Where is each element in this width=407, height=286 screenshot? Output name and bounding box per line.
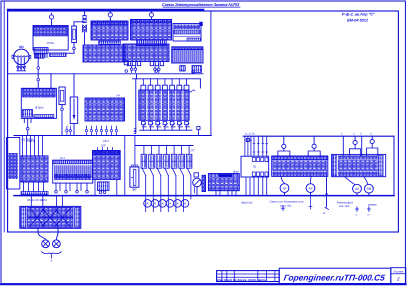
current transformer TA3 bbox=[156, 154, 162, 175]
earth tap bbox=[282, 206, 285, 211]
CT drops bbox=[144, 146, 189, 155]
svg-text:3: 3 bbox=[360, 133, 362, 136]
B2r fuse feed 2 bbox=[308, 136, 320, 156]
group brace bbox=[42, 252, 62, 255]
svg-text:4 9В М: 4 9В М bbox=[26, 139, 36, 143]
RBk outlet wires bbox=[56, 183, 87, 190]
LB feeders up bbox=[23, 136, 43, 156]
svg-text:Листов: Листов bbox=[392, 270, 403, 273]
current transformer TA6 bbox=[179, 154, 185, 175]
bank X sub block bbox=[98, 182, 110, 191]
current transformer TA2 bbox=[149, 154, 155, 175]
svg-text:резерв: резерв bbox=[367, 204, 377, 207]
B2r side wire bbox=[325, 176, 329, 209]
B1 aux lower box bbox=[35, 54, 45, 58]
matrix T top terminal boxes bbox=[141, 85, 189, 90]
bank K corner box bbox=[124, 61, 128, 65]
matrix T top stubs bbox=[143, 79, 186, 85]
B4 fuse feed 4 bbox=[367, 136, 378, 155]
B4 fuse feed 2 bbox=[350, 136, 361, 155]
title underline bbox=[163, 6, 240, 8]
relay bank RB2 bbox=[131, 20, 172, 41]
fuse box on drop bbox=[246, 139, 249, 142]
ammeter PA5 bbox=[174, 200, 182, 208]
connector X2 bbox=[192, 66, 201, 73]
fuse F4 bbox=[130, 136, 139, 192]
CB outputs to bus bbox=[246, 177, 267, 196]
svg-text:2: 2 bbox=[352, 133, 355, 136]
section bus 2b bbox=[243, 135, 394, 137]
magnetic starter B1 body bbox=[33, 26, 68, 51]
B2r connection dot bbox=[326, 193, 328, 195]
LB outlet strip bbox=[21, 192, 48, 195]
current transformer TA7 bbox=[186, 154, 192, 175]
wire FU4 to RB2 bbox=[150, 18, 152, 21]
motor M1 bbox=[12, 45, 31, 65]
switch QS1 bbox=[70, 74, 78, 136]
PLC2 aux block bbox=[23, 110, 33, 118]
svg-text:М1: М1 bbox=[19, 45, 24, 49]
B1 aux contact block bbox=[34, 48, 48, 54]
control wiring run bbox=[8, 74, 203, 132]
PLC2 bottom terminal bbox=[26, 127, 29, 130]
contactor bank K bbox=[83, 45, 125, 62]
transformer cubicle CB bbox=[241, 156, 269, 177]
CB feeders from bus2b bbox=[245, 136, 267, 156]
main 0.4kV bottom bus bbox=[14, 195, 394, 197]
brace tick bbox=[50, 255, 52, 258]
svg-text:секц. №1: секц. №1 bbox=[280, 204, 292, 207]
CB feeder ticks bbox=[253, 144, 268, 153]
bank X top stubs bbox=[98, 148, 113, 151]
matrix T bottom stubs bbox=[143, 127, 186, 130]
voltmeter PV2 bbox=[306, 176, 315, 209]
svg-text:Тр: Тр bbox=[253, 165, 257, 169]
matrix T bottom contacts bbox=[142, 121, 189, 124]
RBk outlet terminals bbox=[55, 191, 89, 194]
svg-text:20Г: 20Г bbox=[100, 144, 106, 148]
distribution bank RBk bbox=[53, 156, 93, 183]
feeder bank B4 bbox=[332, 154, 386, 176]
meter tail 2 bbox=[368, 207, 371, 212]
svg-text:дым: дым bbox=[233, 169, 239, 173]
svg-text:1: 1 bbox=[341, 133, 343, 136]
ammeter PA4 bbox=[166, 200, 174, 208]
wire PLC2 to bus2a bbox=[27, 130, 29, 136]
current transformer TA4 bbox=[164, 154, 170, 175]
cabinet feeders from bus bbox=[31, 196, 62, 207]
svg-text:АУ: АУ bbox=[308, 187, 314, 191]
current transformer TA5 bbox=[171, 154, 177, 175]
svg-text:п: п bbox=[356, 214, 358, 217]
svg-text:Схема Электроснабжения Замена: Схема Электроснабжения Замена №753 bbox=[162, 2, 240, 7]
contactor bank L bbox=[123, 44, 169, 62]
svg-text:-ПУск-: -ПУск- bbox=[46, 41, 55, 45]
lamp HL2 bbox=[53, 240, 61, 248]
svg-text:РУ: РУ bbox=[116, 94, 121, 98]
B4 feed wire 3 bbox=[361, 136, 363, 155]
ammeter PA3 bbox=[159, 200, 167, 208]
F3 terminal bbox=[61, 108, 64, 111]
svg-text:1с 2с 3с: 1с 2с 3с bbox=[245, 132, 255, 135]
svg-text:4!: 4! bbox=[323, 212, 325, 215]
wire FU2 to strip bbox=[66, 50, 74, 54]
wattmeter PW1 bbox=[345, 177, 362, 196]
hatched bank M bbox=[172, 47, 203, 63]
title block name cell bbox=[279, 268, 391, 283]
svg-text:ЭС: ЭС bbox=[132, 188, 137, 192]
svg-text:Р-ф-2, ав.Апр "С": Р-ф-2, ав.Апр "С" bbox=[342, 13, 375, 17]
bus2b tap labels right bbox=[341, 133, 372, 136]
lamp feed wires bbox=[38, 228, 58, 239]
B1 bottom terminal strip bbox=[50, 53, 67, 57]
relay matrix T bbox=[139, 90, 189, 120]
PLC2 top lead bbox=[37, 74, 39, 89]
svg-text:а б в г: а б в г bbox=[245, 139, 253, 142]
svg-text:к!: к! bbox=[368, 214, 370, 217]
svg-text:4: 4 bbox=[370, 133, 372, 136]
wattmeter PW bbox=[193, 173, 202, 196]
bank S outlet terminals bbox=[66, 126, 118, 135]
left margin line bbox=[3, 1, 5, 232]
B2r fuse feed 1 bbox=[278, 136, 290, 156]
ammeter PA6 bbox=[181, 200, 189, 208]
motor leads bbox=[18, 58, 24, 67]
fuse FU4 bbox=[149, 11, 153, 19]
relay group under RB2 bbox=[137, 40, 167, 46]
ammeter PA1 bbox=[144, 200, 152, 208]
title block table bbox=[217, 271, 280, 282]
voltage transformer drop bbox=[83, 11, 87, 45]
drawing frame bbox=[8, 11, 399, 232]
svg-text:АУ: АУ bbox=[354, 187, 360, 191]
svg-text:ВМ-04 5012: ВМ-04 5012 bbox=[347, 18, 369, 22]
bank L plug legs group 1 bbox=[127, 62, 140, 66]
ammeter drop wires bbox=[146, 176, 191, 212]
riser wire bbox=[124, 136, 126, 196]
cabinet left pillar bbox=[7, 138, 20, 190]
LB2 bus ticks bbox=[216, 191, 236, 196]
terminal bubbles row top of bay 2 bbox=[125, 70, 194, 74]
B1 down terminal bbox=[37, 67, 40, 70]
wire B1 down bbox=[37, 58, 39, 67]
feeder bank B2r bbox=[272, 156, 328, 176]
lamp HL1 bbox=[42, 240, 50, 248]
bank L plug legs group 2 bbox=[150, 62, 163, 66]
wire FU1 to starter bbox=[51, 21, 53, 26]
PLC2 right lead bbox=[50, 74, 52, 89]
svg-text:Ввод №1: Ввод №1 bbox=[242, 202, 254, 205]
squiggle label bbox=[186, 90, 195, 92]
wattmeter PW2 bbox=[364, 177, 373, 196]
wire FU3 to RB1 bbox=[109, 19, 111, 21]
feeder bank X bbox=[93, 151, 121, 180]
sheets cell bbox=[391, 268, 406, 284]
ammeter PA2 bbox=[151, 200, 159, 208]
connector plugs Ш1 bbox=[130, 66, 160, 73]
bank X outlet terminals bbox=[99, 191, 102, 194]
B1 aux legs bbox=[36, 54, 47, 58]
feeder wire (long vertical) bbox=[210, 11, 212, 136]
LB down wires bbox=[24, 182, 44, 192]
B1 terminal rows bbox=[34, 26, 68, 36]
small aux box bbox=[202, 175, 206, 191]
svg-text:РВ: РВ bbox=[367, 187, 372, 191]
svg-text:Изм Лист № докум. Подп. Дата: Изм Лист № докум. Подп. Дата bbox=[217, 278, 266, 282]
CT feed run bbox=[135, 145, 193, 147]
fuse FU1 bbox=[49, 13, 53, 21]
control panel RB3 bbox=[173, 24, 201, 42]
svg-text:Связь шин Установка шин: Связь шин Установка шин bbox=[270, 201, 304, 204]
section bus 2a bbox=[14, 135, 211, 137]
current transformer TA1 bbox=[141, 154, 147, 175]
PLC2 bottom legs bbox=[24, 118, 31, 127]
matrix T bottom switches bbox=[142, 124, 189, 127]
sheet bottom thick edge bbox=[1, 283, 406, 285]
incomer bank LB2 bbox=[208, 169, 239, 190]
RB3 corner box bbox=[199, 22, 202, 26]
distribution board cabinet bbox=[20, 206, 81, 228]
PLC2 top terminal bbox=[37, 78, 40, 81]
fuse FU2 bbox=[72, 22, 85, 47]
motor lead plugs bbox=[17, 67, 26, 71]
controller PLC2 body bbox=[21, 88, 56, 118]
svg-text:.dПуск.: .dПуск. bbox=[34, 106, 44, 110]
fuse F3 bbox=[59, 87, 65, 108]
meter tail 1 bbox=[356, 207, 359, 212]
svg-text:ЛТ: ЛТ bbox=[190, 149, 195, 153]
svg-text:2ТТ: 2ТТ bbox=[59, 156, 65, 160]
wire to control run bbox=[37, 70, 39, 74]
matrix T column gaps bbox=[147, 91, 183, 120]
svg-text:осв. №2: осв. №2 bbox=[339, 205, 350, 208]
PLC2 terminal rows bbox=[23, 88, 56, 97]
terminal strip under RB1 bbox=[99, 41, 121, 44]
B4 feed wire 1 bbox=[342, 136, 344, 155]
svg-text:2: 2 bbox=[396, 277, 400, 282]
FU2 lower terminal bbox=[73, 47, 76, 50]
feeder bank S bbox=[85, 94, 125, 122]
bus2a end terminal bbox=[197, 127, 200, 136]
voltmeter PV1 bbox=[280, 176, 289, 195]
svg-text:1Б 4: 1Б 4 bbox=[103, 139, 109, 143]
svg-text:4А 1п 2д 1БОА: 4А 1п 2д 1БОА bbox=[27, 198, 47, 202]
wire bracket bbox=[134, 128, 136, 133]
fuse FU3 bbox=[108, 11, 112, 19]
bank X down wires bbox=[95, 179, 117, 195]
section riser wire bbox=[393, 136, 395, 195]
relay bank RB1 bbox=[91, 21, 128, 40]
svg-text:Горengineer.ruТП-000.С5: Горengineer.ruТП-000.С5 bbox=[283, 272, 386, 282]
switch bank LB bbox=[20, 156, 48, 182]
wire F3 to bus2a bbox=[61, 111, 63, 136]
svg-text:АУ: АУ bbox=[282, 187, 288, 191]
PLC2 bottom strip bbox=[34, 115, 54, 118]
main top bus bbox=[8, 9, 203, 12]
svg-text:л: л bbox=[50, 259, 53, 263]
connector X1 bbox=[180, 66, 185, 71]
